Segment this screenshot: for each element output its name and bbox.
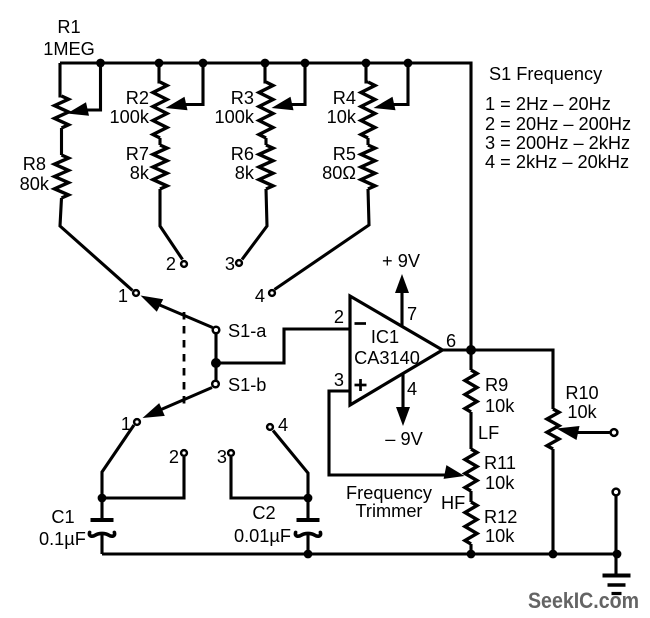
wire: R4 to R5 — [366, 138, 369, 145]
wire: R9 to R11 (LF node) — [469, 412, 472, 449]
resistor R9 10k — [465, 370, 477, 412]
svg-text:+ 9V: + 9V — [382, 251, 421, 271]
junction dot (wiper of R1 on bus) — [96, 59, 105, 68]
wire: R6 to S1-a contact 3 — [242, 189, 267, 260]
junction dot (S1 poles) — [211, 358, 221, 368]
svg-text:80Ω: 80Ω — [322, 163, 356, 183]
resistor R7 8k — [153, 145, 167, 189]
svg-text:C2: C2 — [252, 503, 275, 523]
svg-text:1: 1 — [118, 286, 128, 306]
svg-text:1MEG: 1MEG — [43, 39, 95, 59]
resistor R2 100k (potentiometer element) — [153, 82, 167, 138]
wire: R2 to R7 — [158, 138, 161, 145]
svg-text:R1: R1 — [57, 17, 80, 37]
svg-text:10k: 10k — [485, 526, 515, 546]
ground symbol — [603, 574, 631, 578]
wire: bus drop to R2 — [159, 63, 160, 82]
capacitor C2 lead top — [306, 498, 309, 518]
wire: R8 to S1-a contact 1 — [60, 198, 133, 291]
wire: S1-b contact 2 to C1 node — [102, 457, 184, 498]
svg-text:10k: 10k — [567, 402, 597, 422]
svg-text:HF: HF — [441, 493, 465, 513]
output terminal (R10 wiper) — [611, 429, 618, 436]
svg-text:LF: LF — [478, 423, 499, 443]
svg-text:C1: C1 — [51, 507, 74, 527]
wire: bus drop to R3 — [265, 63, 266, 82]
switch S1-b pole terminal — [212, 381, 219, 388]
svg-text:IC1: IC1 — [371, 327, 399, 347]
svg-text:7: 7 — [407, 304, 417, 324]
resistor R12 10k — [465, 502, 477, 544]
svg-text:R5: R5 — [333, 144, 356, 164]
svg-text:S1-b: S1-b — [228, 375, 266, 395]
resistor R6 8k — [259, 145, 273, 189]
switch S1-a pole terminal — [213, 327, 220, 334]
resistor R11 10k (frequency trimmer) — [465, 449, 477, 491]
S1-a contact 1 — [133, 290, 139, 296]
wire: output node to R10 — [471, 350, 553, 409]
svg-text:0.01µF: 0.01µF — [234, 526, 291, 546]
wire: R5 to S1-a contact 4 — [275, 189, 370, 290]
junction dot (R4 top on bus) — [362, 59, 371, 68]
capacitor C1 lead top — [100, 498, 103, 518]
svg-text:10k: 10k — [485, 473, 515, 493]
svg-text:Trimmer: Trimmer — [355, 501, 422, 521]
svg-text:2: 2 — [334, 307, 344, 327]
wiper arrow of R1 — [67, 102, 89, 116]
wiper arrow of R4 — [374, 97, 396, 111]
S1-a contact 3 — [236, 260, 242, 266]
input/output terminal upper right — [613, 489, 620, 496]
wire: R12 to bottom bus — [469, 544, 472, 554]
svg-text:3: 3 — [217, 447, 227, 467]
svg-text:4: 4 — [278, 415, 288, 435]
wire: S1-b contact 3 to C2 node — [231, 457, 308, 498]
svg-text:4 = 2kHz – 20kHz: 4 = 2kHz – 20kHz — [485, 152, 629, 172]
junction dot (wiper of R2 on bus) — [199, 59, 208, 68]
wire: R3 wiper to top bus — [288, 63, 305, 105]
svg-text:S1-a: S1-a — [228, 321, 267, 341]
svg-text:R6: R6 — [231, 144, 254, 164]
svg-text:100k: 100k — [110, 107, 150, 127]
resistor R10 10k (potentiometer) — [547, 409, 559, 449]
S1-a contact 4 — [269, 290, 275, 296]
svg-text:R4: R4 — [333, 88, 356, 108]
resistor R4 10k (potentiometer element) — [361, 82, 375, 138]
svg-text:8k: 8k — [235, 163, 255, 183]
wire: R1 wiper to top bus — [84, 63, 101, 110]
wire: top bus (R1 top rail) — [60, 63, 471, 350]
svg-text:10k: 10k — [485, 396, 515, 416]
svg-text:R2: R2 — [126, 88, 149, 108]
wire: pin 3 of IC1 to frequency trimmer (R11 wiper) — [329, 391, 450, 475]
op-amp minus sign (pin 2) — [355, 322, 367, 325]
wire: R4 wiper to top bus — [390, 63, 408, 105]
S1-b contact 2 — [181, 450, 187, 456]
junction dot (R3 top on bus) — [261, 59, 270, 68]
wiper arrow of R10 — [557, 426, 580, 440]
wire: S1-a pole to junction — [214, 334, 217, 380]
junction dot (R2 top on bus) — [155, 59, 164, 68]
wire: bus drop to R4 — [366, 63, 368, 82]
switch S1-b selector arm — [160, 388, 212, 411]
frequency trimmer arrow into R11 — [444, 465, 465, 479]
resistor R1 1MEG (potentiometer element) — [55, 96, 69, 128]
wire: S1-b contact 4 to C2 — [273, 431, 308, 499]
wire: R7 to S1-a contact 2 — [160, 189, 183, 260]
junction dot (bottom bus) — [304, 550, 313, 559]
svg-text:1 = 2Hz – 20Hz: 1 = 2Hz – 20Hz — [485, 94, 611, 114]
junction dot (bottom bus) — [549, 550, 558, 559]
svg-text:3 = 200Hz – 2kHz: 3 = 200Hz – 2kHz — [485, 133, 630, 153]
svg-text:2: 2 — [166, 254, 176, 274]
op-amp plus sign (pin 3) — [355, 384, 367, 387]
svg-text:R9: R9 — [485, 375, 508, 395]
junction dot (bottom bus) — [613, 550, 622, 559]
wire: R3 to R6 — [264, 138, 267, 145]
S1-b contact 4 — [267, 424, 273, 430]
svg-text:S1 Frequency: S1 Frequency — [489, 64, 603, 84]
wire: S1-b contact 1 to C1 — [102, 425, 134, 498]
svg-text:R10: R10 — [565, 383, 598, 403]
resistor R5 80Ω — [361, 145, 375, 189]
svg-text:3: 3 — [334, 370, 344, 390]
S1-b contact 1 — [134, 419, 140, 425]
junction dot (C2 top node) — [304, 494, 313, 503]
svg-text:– 9V: – 9V — [385, 429, 423, 449]
svg-text:2: 2 — [169, 447, 179, 467]
svg-text:Frequency: Frequency — [346, 483, 433, 503]
svg-text:1: 1 — [121, 414, 131, 434]
capacitor C2 curved plate — [295, 532, 320, 536]
svg-text:R3: R3 — [231, 88, 254, 108]
wiper arrow of R2 — [166, 97, 188, 111]
wire: bus drop to R1 — [60, 63, 62, 96]
junction dot (C1 top node) — [98, 494, 107, 503]
svg-text:3: 3 — [225, 254, 235, 274]
svg-text:80k: 80k — [20, 174, 50, 194]
svg-text:R7: R7 — [126, 144, 149, 164]
op-amp IC1 CA3140 triangle — [350, 296, 443, 405]
capacitor C1 curved plate — [89, 532, 114, 536]
wire: output node to R9 — [469, 350, 472, 370]
svg-text:R8: R8 — [23, 154, 46, 174]
svg-text:4: 4 — [407, 379, 417, 399]
svg-text:10k: 10k — [327, 107, 357, 127]
svg-text:2 = 20Hz – 200Hz: 2 = 20Hz – 200Hz — [485, 114, 631, 134]
junction dot (wiper of R4 on bus) — [404, 59, 413, 68]
capacitor C2 lead bottom — [306, 535, 309, 554]
capacitor C1 lead bottom — [100, 535, 103, 554]
wire: R10 bottom to bus — [551, 449, 554, 554]
resistor R3 100k (potentiometer element) — [259, 82, 273, 138]
mechanical link (dashed) between S1-a and S1-b — [183, 312, 186, 410]
wire: S1 junction to pin 2 of IC1 — [216, 329, 350, 363]
wiper arrow of R3 — [272, 97, 294, 111]
S1-b contact 3 — [228, 450, 234, 456]
wire: R1 to R8 — [60, 128, 63, 155]
svg-text:CA3140: CA3140 — [354, 348, 420, 368]
wire: pin 6 output — [442, 348, 471, 351]
capacitor C2 flat plate — [297, 518, 320, 522]
svg-text:SeekIC.com: SeekIC.com — [528, 588, 639, 613]
junction dot (wiper of R3 on bus) — [301, 59, 310, 68]
wire: R11 to R12 (HF node) — [469, 491, 472, 502]
svg-text:0.1µF: 0.1µF — [39, 529, 86, 549]
svg-text:R11: R11 — [484, 453, 516, 473]
svg-text:8k: 8k — [130, 163, 150, 183]
svg-text:100k: 100k — [215, 107, 255, 127]
wire: terminal to ground — [614, 497, 617, 576]
svg-text:4: 4 — [255, 286, 265, 306]
wire: R2 wiper to top bus — [182, 63, 203, 105]
svg-text:R12: R12 — [484, 507, 517, 527]
switch S1-a selector arm — [155, 303, 213, 328]
capacitor C1 flat plate — [91, 518, 114, 522]
wire: R10 wiper to output terminal — [575, 431, 610, 434]
pin 4 supply arrow (-9V) — [401, 373, 404, 410]
svg-text:6: 6 — [446, 331, 456, 351]
junction dot (bottom bus) — [467, 550, 476, 559]
resistor R8 80k — [55, 155, 69, 198]
junction dot (output node, pin 6) — [466, 345, 476, 355]
S1-a contact 2 — [181, 261, 187, 267]
pin 7 supply arrow (+9V) — [400, 292, 403, 326]
wire: bottom ground bus — [102, 552, 617, 555]
